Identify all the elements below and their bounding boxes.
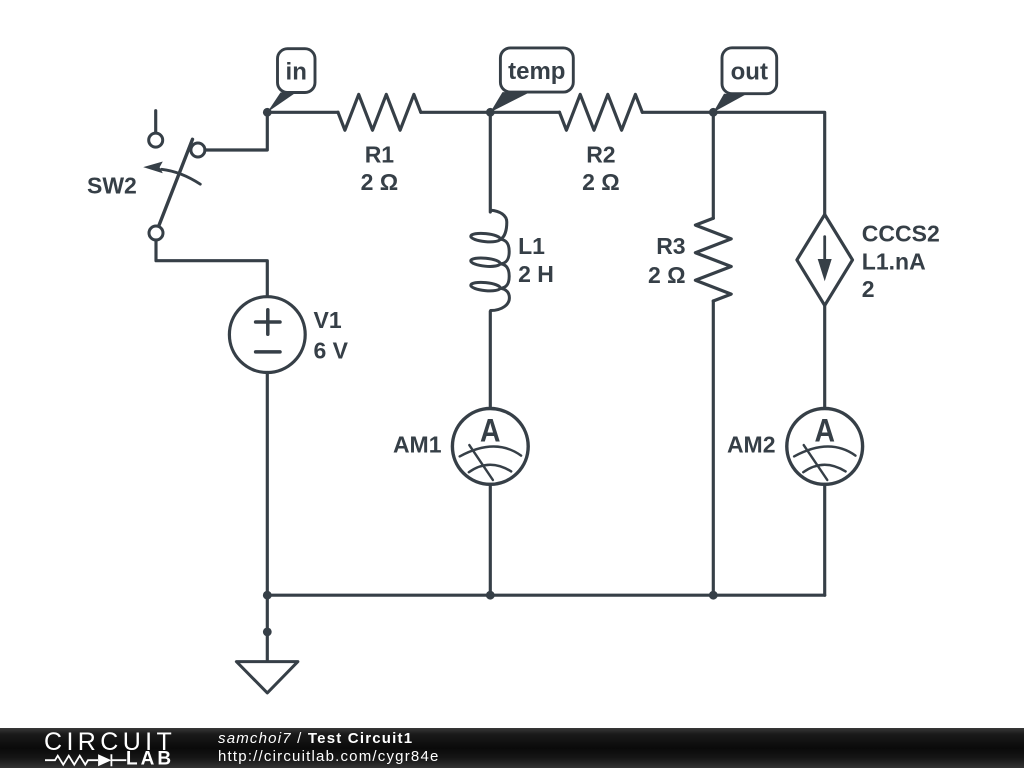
SW2 label [87, 173, 137, 199]
svg-text:LAB: LAB [126, 749, 174, 768]
node label out [722, 48, 777, 94]
CCCS2 control label L1.nA [862, 248, 926, 274]
svg-text:CCCS2: CCCS2 [862, 220, 940, 246]
node label temp tail [490, 92, 530, 112]
switch SW2 throw terminal circle [149, 133, 163, 147]
wire L1 to AM1 [489, 311, 492, 408]
rail junction dot left [263, 591, 272, 600]
svg-text:L1.nA: L1.nA [862, 248, 926, 274]
wire AM2 to ground rail [823, 484, 826, 595]
wire switch to in node [205, 112, 267, 150]
svg-text:R3: R3 [656, 233, 685, 259]
svg-text:R1: R1 [365, 142, 395, 168]
wire out node to right column [713, 112, 824, 214]
node in junction dot [263, 108, 272, 117]
wire CCCS2 to AM2 [823, 305, 826, 408]
node label temp [500, 48, 573, 92]
node label in [278, 49, 316, 93]
svg-text:AM2: AM2 [727, 432, 776, 458]
current source CCCS2 diamond [797, 215, 853, 306]
node label in tail [267, 93, 296, 113]
switch SW2 lever [156, 139, 193, 233]
wire V1 to ground rail [266, 373, 269, 596]
inductor L1 [470, 210, 509, 310]
wire R2 to out node [642, 111, 713, 114]
L1 value label 2 H [518, 261, 554, 287]
svg-text:2 H: 2 H [518, 261, 554, 287]
V1 value label 6 V [314, 338, 349, 364]
V1 designator label [314, 307, 342, 333]
wire out node to R3 [712, 112, 715, 218]
R2 designator label [586, 142, 615, 168]
switch SW2 right terminal circle [191, 143, 205, 157]
AM2 label [727, 432, 776, 458]
ground stem dot [263, 628, 272, 637]
ammeter AM1 [452, 409, 528, 485]
svg-text:A: A [814, 413, 835, 449]
switch SW2 actuation arrow [143, 162, 200, 185]
switch SW2 common terminal circle [149, 226, 163, 240]
svg-text:AM1: AM1 [393, 432, 442, 458]
resistor R1 [338, 94, 421, 130]
R3 designator label [656, 233, 685, 259]
AM1 label [393, 432, 442, 458]
wire temp node to L1 [489, 112, 492, 212]
switch SW2 throw stub [154, 111, 157, 133]
ground symbol [236, 662, 298, 693]
node temp junction dot [486, 108, 495, 117]
resistor R2 [560, 94, 643, 130]
wire R1 to temp node [421, 111, 491, 114]
svg-text:A: A [480, 413, 501, 449]
svg-text:2 Ω: 2 Ω [582, 169, 620, 195]
svg-text:in: in [286, 59, 307, 86]
CircuitLab logo [0, 728, 190, 768]
wire R3 to ground rail [712, 301, 715, 595]
svg-text:L1: L1 [518, 233, 545, 259]
wire AM1 to ground rail [489, 484, 492, 595]
CCCS2 gain label 2 [862, 276, 875, 302]
node label out tail [713, 94, 747, 113]
footer bar [0, 728, 1024, 768]
svg-text:2 Ω: 2 Ω [648, 262, 686, 288]
svg-text:V1: V1 [314, 307, 342, 333]
R3 value label 2 ohm [648, 262, 686, 288]
svg-text:temp: temp [508, 58, 565, 85]
CCCS2 designator label [862, 220, 940, 246]
voltage source V1 [229, 297, 305, 373]
wire switch common to V1 [156, 240, 267, 297]
wire rail to ground symbol [266, 595, 269, 661]
V1 minus sign [256, 350, 280, 354]
rail junction dot right [709, 591, 718, 600]
wire top rail in to R1 [267, 111, 338, 114]
footer text [218, 730, 440, 766]
R1 value label 2 ohm [361, 169, 399, 195]
ammeter AM2 [787, 409, 863, 485]
L1 designator label [518, 233, 545, 259]
V1 plus sign [256, 310, 280, 334]
R2 value label 2 ohm [582, 169, 620, 195]
svg-text:2 Ω: 2 Ω [361, 169, 399, 195]
svg-text:SW2: SW2 [87, 173, 137, 199]
rail junction dot middle [486, 591, 495, 600]
node out junction dot [709, 108, 718, 117]
CCCS2 arrow [818, 237, 832, 282]
svg-text:R2: R2 [586, 142, 615, 168]
svg-text:out: out [731, 59, 768, 86]
resistor R3 [695, 218, 731, 301]
ground rail wire [267, 594, 824, 597]
R1 designator label [365, 142, 395, 168]
wire temp to R2 [490, 111, 559, 114]
svg-text:2: 2 [862, 276, 875, 302]
svg-text:6 V: 6 V [314, 338, 349, 364]
